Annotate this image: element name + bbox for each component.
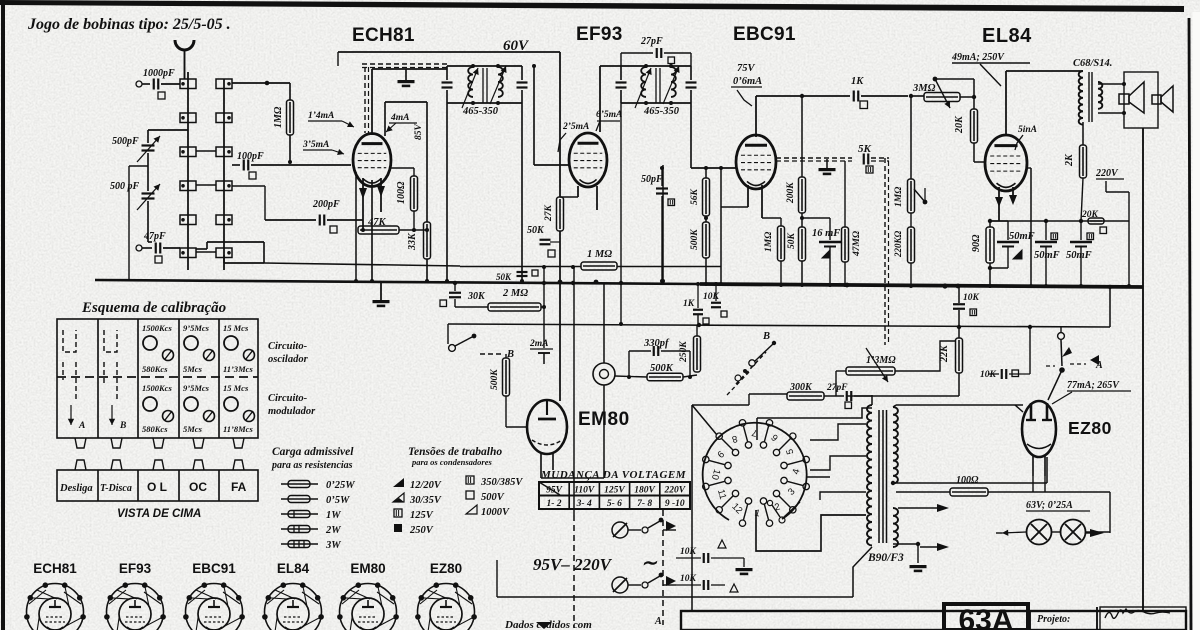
- svg-text:Circuito-: Circuito-: [268, 341, 308, 352]
- svg-text:9’5Mcs: 9’5Mcs: [183, 383, 210, 393]
- svg-text:EBC91: EBC91: [733, 24, 796, 45]
- svg-text:EF93: EF93: [576, 24, 623, 45]
- svg-text:0’25W: 0’25W: [326, 480, 355, 491]
- svg-text:1K: 1K: [683, 299, 695, 309]
- svg-text:Projeto:: Projeto:: [1037, 614, 1070, 625]
- svg-text:OC: OC: [189, 480, 207, 494]
- svg-text:50mF: 50mF: [1066, 250, 1092, 261]
- svg-text:500pF: 500pF: [112, 136, 139, 147]
- svg-text:500K: 500K: [650, 363, 674, 374]
- svg-text:1000pF: 1000pF: [143, 68, 175, 79]
- svg-text:3W: 3W: [325, 540, 341, 551]
- svg-text:11’8Mcs: 11’8Mcs: [223, 424, 253, 434]
- svg-text:EBC91: EBC91: [192, 561, 236, 576]
- svg-text:500K: 500K: [690, 229, 700, 250]
- svg-text:580Kcs: 580Kcs: [142, 364, 168, 374]
- svg-text:100pF: 100pF: [237, 151, 264, 162]
- svg-text:oscilador: oscilador: [268, 354, 309, 365]
- svg-text:350/385V: 350/385V: [480, 477, 523, 488]
- svg-text:Desliga: Desliga: [59, 483, 93, 494]
- svg-text:580Kcs: 580Kcs: [142, 424, 168, 434]
- svg-text:EM80: EM80: [350, 561, 385, 576]
- svg-text:5inA: 5inA: [1018, 125, 1037, 135]
- svg-text:330pf: 330pf: [643, 338, 670, 349]
- svg-text:modulador: modulador: [268, 406, 316, 417]
- svg-text:10K: 10K: [703, 292, 720, 302]
- svg-text:2K: 2K: [1064, 153, 1075, 167]
- svg-text:10K: 10K: [963, 293, 980, 303]
- svg-text:T-Disca: T-Disca: [100, 483, 132, 494]
- svg-text:1’4mA: 1’4mA: [308, 111, 334, 121]
- svg-text:1 MΩ: 1 MΩ: [587, 249, 612, 260]
- svg-text:200K: 200K: [786, 182, 796, 204]
- svg-text:56K: 56K: [690, 189, 700, 206]
- svg-text:2W: 2W: [325, 525, 341, 536]
- svg-text:100Ω: 100Ω: [956, 475, 979, 486]
- svg-text:5Mcs: 5Mcs: [183, 364, 203, 374]
- svg-text:B: B: [762, 331, 770, 342]
- svg-text:1MΩ: 1MΩ: [764, 232, 774, 252]
- svg-text:FA: FA: [231, 480, 247, 494]
- svg-text:250K: 250K: [679, 341, 689, 363]
- svg-text:95V– 220V: 95V– 220V: [533, 555, 613, 574]
- svg-text:A: A: [78, 421, 85, 431]
- svg-text:A: A: [1095, 360, 1103, 371]
- svg-text:50K: 50K: [496, 272, 512, 282]
- svg-text:9’5Mcs: 9’5Mcs: [183, 323, 210, 333]
- svg-text:500V: 500V: [481, 492, 505, 503]
- svg-text:6’5mA: 6’5mA: [596, 110, 622, 120]
- svg-text:125V: 125V: [604, 486, 625, 496]
- svg-text:∼: ∼: [641, 553, 658, 574]
- svg-text:5Mcs: 5Mcs: [183, 424, 203, 434]
- svg-text:Esquema de calibração: Esquema de calibração: [81, 300, 226, 316]
- svg-text:7- 8: 7- 8: [637, 499, 652, 509]
- svg-text:10K: 10K: [680, 547, 697, 557]
- svg-text:90Ω: 90Ω: [971, 234, 982, 252]
- svg-text:50K: 50K: [527, 225, 545, 236]
- svg-text:47pF: 47pF: [143, 231, 166, 242]
- svg-text:O L: O L: [147, 480, 167, 494]
- svg-text:30K: 30K: [467, 291, 486, 302]
- svg-text:1K: 1K: [851, 76, 864, 87]
- svg-text:11’3Mcs: 11’3Mcs: [223, 364, 253, 374]
- svg-text:B90/F3: B90/F3: [867, 552, 904, 564]
- svg-text:220KΩ: 220KΩ: [893, 230, 903, 258]
- svg-text:EL84: EL84: [982, 25, 1032, 47]
- svg-text:30/35V: 30/35V: [409, 495, 442, 506]
- svg-text:10K: 10K: [680, 574, 697, 584]
- svg-text:EZ80: EZ80: [1068, 418, 1112, 438]
- svg-text:Circuito-: Circuito-: [268, 393, 308, 404]
- svg-text:15 Mcs: 15 Mcs: [223, 383, 249, 393]
- svg-text:MUDANÇA DA VOLTAGEM: MUDANÇA DA VOLTAGEM: [540, 469, 687, 481]
- svg-text:50mF: 50mF: [1009, 231, 1035, 242]
- svg-text:27pF: 27pF: [826, 383, 848, 393]
- svg-text:9 -10: 9 -10: [665, 499, 685, 509]
- svg-text:50K: 50K: [787, 233, 797, 250]
- svg-text:1000V: 1000V: [481, 507, 510, 518]
- svg-text:3- 4: 3- 4: [576, 499, 592, 509]
- svg-text:180V: 180V: [634, 486, 655, 496]
- svg-text:2mA: 2mA: [529, 339, 548, 349]
- svg-text:50pF: 50pF: [641, 174, 663, 185]
- svg-text:A: A: [654, 616, 662, 627]
- svg-text:220V: 220V: [664, 486, 686, 496]
- svg-text:EL84: EL84: [277, 561, 310, 576]
- svg-text:5- 6: 5- 6: [607, 499, 622, 509]
- svg-text:85V: 85V: [414, 124, 424, 141]
- svg-text:Carga admissivel: Carga admissivel: [272, 446, 354, 458]
- svg-text:250V: 250V: [409, 525, 434, 536]
- svg-text:100Ω: 100Ω: [396, 181, 407, 204]
- svg-text:C68/S14.: C68/S14.: [1073, 58, 1112, 69]
- svg-text:95V: 95V: [546, 486, 563, 496]
- svg-text:465-350: 465-350: [462, 106, 499, 117]
- svg-text:Jogo de bobinas tipo: 25/5-05: Jogo de bobinas tipo: 25/5-05 .: [27, 16, 231, 33]
- svg-text:200pF: 200pF: [312, 199, 340, 210]
- svg-text:5K: 5K: [858, 143, 872, 155]
- svg-text:12/20V: 12/20V: [410, 480, 442, 491]
- svg-text:EZ80: EZ80: [430, 561, 462, 576]
- svg-text:1500Kcs: 1500Kcs: [142, 383, 172, 393]
- svg-text:77mA; 265V: 77mA; 265V: [1067, 380, 1120, 391]
- svg-text:63V; 0’25A: 63V; 0’25A: [1026, 500, 1073, 511]
- svg-text:75V: 75V: [737, 63, 756, 74]
- svg-text:VISTA DE CIMA: VISTA DE CIMA: [117, 508, 201, 520]
- svg-text:ECH81: ECH81: [33, 561, 77, 576]
- svg-text:16 mF: 16 mF: [812, 228, 840, 239]
- svg-text:4mA: 4mA: [390, 113, 409, 123]
- svg-text:3’5mA: 3’5mA: [302, 140, 329, 150]
- svg-text:125V: 125V: [410, 510, 434, 521]
- svg-text:63A: 63A: [958, 604, 1013, 630]
- svg-text:para as resistencias: para as resistencias: [271, 460, 353, 471]
- svg-text:110V: 110V: [574, 486, 595, 496]
- svg-text:27K: 27K: [544, 205, 554, 223]
- svg-text:10K: 10K: [980, 370, 997, 380]
- svg-text:15 Mcs: 15 Mcs: [223, 323, 249, 333]
- svg-text:1MΩ: 1MΩ: [894, 187, 904, 207]
- svg-text:22K: 22K: [939, 344, 950, 363]
- svg-text:0’5W: 0’5W: [326, 495, 350, 506]
- svg-text:2 MΩ: 2 MΩ: [502, 288, 528, 299]
- svg-text:1- 2: 1- 2: [546, 499, 561, 509]
- svg-text:500K: 500K: [490, 369, 500, 390]
- svg-text:20K: 20K: [954, 115, 965, 134]
- svg-text:1’3MΩ: 1’3MΩ: [866, 355, 896, 366]
- svg-text:EF93: EF93: [119, 561, 152, 576]
- svg-text:47MΩ: 47MΩ: [852, 231, 862, 257]
- svg-text:2’5mA: 2’5mA: [562, 122, 589, 132]
- svg-text:33K: 33K: [407, 232, 418, 251]
- svg-text:50mF: 50mF: [1034, 250, 1060, 261]
- svg-text:B: B: [119, 421, 126, 431]
- svg-text:49mA; 250V: 49mA; 250V: [951, 52, 1005, 63]
- svg-text:27pF: 27pF: [640, 36, 663, 47]
- svg-text:500 pF: 500 pF: [110, 181, 140, 192]
- svg-text:para os condensadores: para os condensadores: [411, 457, 493, 467]
- svg-text:220V: 220V: [1095, 168, 1119, 179]
- svg-text:465-350: 465-350: [643, 106, 680, 117]
- svg-text:1W: 1W: [326, 510, 341, 521]
- svg-text:1MΩ: 1MΩ: [273, 106, 284, 128]
- svg-text:1500Kcs: 1500Kcs: [142, 323, 172, 333]
- svg-text:0’6mA: 0’6mA: [733, 76, 762, 87]
- svg-text:ECH81: ECH81: [352, 25, 415, 46]
